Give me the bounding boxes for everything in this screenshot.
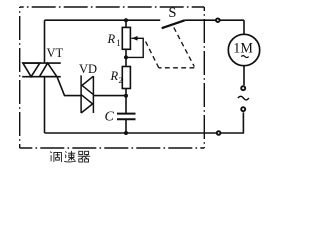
svg-text:R: R xyxy=(107,32,116,46)
svg-text:VT: VT xyxy=(47,46,64,60)
svg-text:1M: 1M xyxy=(233,41,253,57)
svg-text:R: R xyxy=(110,69,119,83)
svg-text:1: 1 xyxy=(116,38,121,48)
svg-text:VD: VD xyxy=(79,62,97,76)
svg-text:2: 2 xyxy=(118,75,122,85)
svg-text:C: C xyxy=(105,110,115,125)
svg-text:S: S xyxy=(168,5,176,21)
